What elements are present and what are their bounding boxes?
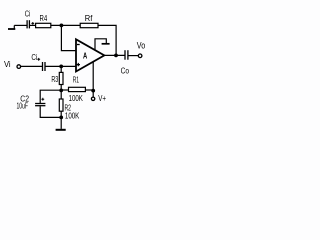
svg-text:Ci: Ci — [25, 8, 31, 18]
svg-text:R3: R3 — [51, 74, 58, 84]
node J2 (output) — [114, 54, 118, 58]
node J1 (inverting input) — [60, 24, 64, 28]
node R1/V+ — [91, 89, 95, 93]
wire — [30, 24, 36, 26]
wire (node to R3) — [60, 66, 62, 72]
resistor R3 — [59, 72, 63, 84]
wire (C2 to ground rail) — [40, 106, 61, 117]
wire — [14, 24, 26, 26]
wire (output) — [104, 54, 124, 56]
capacitor Ci (input) — [43, 62, 46, 71]
op-amp U1 — [76, 39, 104, 71]
wire (to Vo) — [128, 55, 138, 57]
ground (bottom) — [56, 129, 66, 131]
capacitor C2 — [35, 104, 45, 106]
wire (to ground) — [60, 117, 62, 128]
wire — [51, 24, 80, 26]
wire — [85, 89, 93, 91]
capacitor Co — [125, 50, 128, 60]
polarity + (input Ci) — [37, 58, 40, 61]
polarity + (top Ci) — [31, 22, 34, 25]
svg-text:10uF: 10uF — [17, 101, 29, 111]
capacitor Ci (top, feedback shunt) — [27, 20, 29, 28]
node J3 (+ input) — [59, 65, 63, 69]
svg-text:Rf: Rf — [85, 13, 93, 23]
V- pin to ground flag — [95, 39, 110, 51]
op-amp plus sign — [77, 63, 80, 66]
terminal V+ — [91, 97, 94, 100]
terminal Vo — [138, 54, 142, 58]
wire (bias node to C2) — [40, 90, 61, 103]
resistor Rf — [80, 23, 98, 27]
wire — [60, 111, 62, 117]
wire (bias node to R2) — [60, 90, 62, 99]
node bias — [59, 89, 63, 93]
polarity + (C2) — [41, 98, 44, 101]
wire (to V+ terminal) — [92, 91, 94, 97]
wire — [60, 85, 62, 91]
wire (Vi to Ci) — [20, 65, 42, 67]
node ground rail — [59, 116, 63, 120]
wire (bias node to R1) — [61, 89, 68, 91]
resistor R2 — [59, 99, 63, 111]
svg-text:Vo: Vo — [137, 41, 145, 51]
wire (to + input) — [46, 65, 77, 67]
svg-text:R1: R1 — [73, 74, 80, 84]
wire (Rf to output node) — [98, 25, 116, 55]
terminal Vi — [17, 65, 21, 69]
op-amp minus sign — [77, 44, 80, 46]
resistor R4 — [36, 23, 51, 27]
svg-text:Vi: Vi — [4, 59, 11, 69]
wire (inverting input) — [61, 25, 76, 50]
svg-text:Co: Co — [121, 65, 130, 75]
resistor R1 — [69, 87, 86, 91]
svg-text:100K: 100K — [65, 110, 80, 120]
wire (op-amp V+ pin) — [92, 62, 94, 91]
svg-text:Ci: Ci — [31, 52, 37, 62]
svg-text:R4: R4 — [40, 13, 48, 23]
svg-text:V+: V+ — [98, 93, 106, 103]
ground (top-left) — [8, 25, 15, 29]
svg-text:A: A — [83, 50, 87, 60]
